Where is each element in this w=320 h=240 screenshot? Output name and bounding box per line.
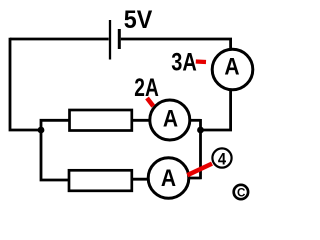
label circled 4	[212, 148, 231, 167]
wire: ammeter A2 to right node	[190, 119, 201, 122]
svg-text:4: 4	[218, 150, 227, 169]
wire: top branch from node up and to resistor R1	[41, 120, 70, 131]
wire: ammeter A1 bottom to right node	[201, 90, 231, 131]
junction node right	[197, 127, 204, 134]
junction node left	[38, 127, 45, 134]
red callout line: ammeter A3 to label 4	[187, 164, 212, 176]
svg-text:C: C	[237, 185, 246, 199]
svg-text:2A: 2A	[134, 74, 159, 102]
ammeter A3 circle	[148, 158, 189, 199]
battery B1 short plate	[118, 29, 121, 49]
copyright mark	[234, 185, 248, 199]
svg-text:A: A	[163, 105, 178, 132]
wire: battery to top-right corner, down to ammeter A1	[121, 39, 231, 50]
wire: ammeter A3 right, up to right node	[189, 119, 201, 179]
ammeter A1 circle	[212, 49, 253, 90]
svg-text:5V: 5V	[124, 6, 153, 34]
wire: top left from corner to battery	[10, 38, 109, 41]
resistor R2	[69, 170, 132, 191]
wire: bottom branch from node down and to resistor R2	[41, 129, 70, 180]
battery B1 long plate	[109, 20, 111, 60]
red callout line: 3A to ammeter A1	[196, 59, 206, 64]
ammeter A2 circle	[150, 100, 190, 140]
wire: resistor R2 to ammeter A3	[132, 178, 149, 181]
wire: resistor R1 to ammeter A2	[132, 119, 150, 122]
wire: left side vertical and bottom-left horizontal to node	[10, 38, 41, 130]
svg-text:3A: 3A	[171, 49, 197, 77]
red callout line: 2A to ammeter A2	[147, 98, 153, 106]
svg-text:A: A	[224, 53, 239, 80]
resistor R1	[70, 110, 132, 131]
svg-text:A: A	[161, 165, 176, 192]
